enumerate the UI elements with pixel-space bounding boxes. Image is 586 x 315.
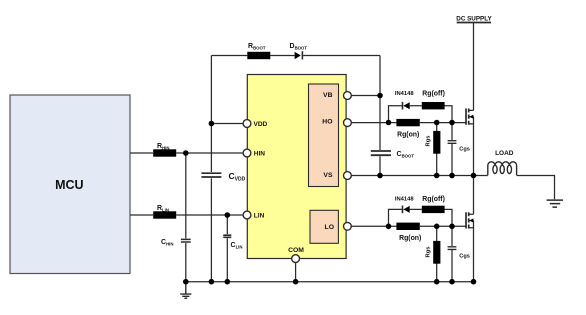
wire load to ground [517, 176, 555, 200]
wire bottom COM rail [186, 281, 474, 283]
ground left [180, 282, 191, 299]
capacitor CLIN [223, 235, 231, 237]
resistor RBOOT [247, 52, 270, 59]
diode DBOOT [295, 52, 301, 59]
node Cgs low junction [449, 224, 455, 230]
mosfet Q2 body arrow [469, 218, 473, 222]
diode IN4148 high [403, 102, 409, 109]
mosfet Q2 drain stub [469, 176, 474, 215]
wire high gate upper branch [389, 106, 453, 123]
mosfet Q1 channel segments [468, 109, 470, 125]
wire HIN from MCU [130, 152, 153, 154]
high-side inner block [309, 84, 339, 187]
wire COM pin drop [295, 262, 297, 282]
pin LO [344, 222, 352, 230]
mosfet Q2 gate bar [465, 212, 467, 228]
resistor Rgs high [433, 131, 440, 154]
svg-text:VDD: VDD [254, 121, 268, 128]
svg-text:LO: LO [325, 224, 334, 231]
wire CBOOT vertical [379, 96, 381, 176]
node Rgs high rail junction [434, 173, 440, 179]
pin VDD [243, 120, 251, 128]
mosfet Q2 source and body [469, 221, 474, 282]
wire Cgs high vertical [451, 123, 453, 176]
pin COM [292, 255, 300, 263]
wire high gate main [420, 122, 466, 124]
node CLIN rail junction [225, 279, 231, 285]
pin HO [344, 119, 352, 127]
svg-text:MCU: MCU [55, 178, 83, 192]
resistor Rg(off) high [422, 102, 445, 109]
svg-text:Rg(off): Rg(off) [422, 90, 445, 97]
wire VB pin to boot node [351, 95, 380, 97]
svg-text:LIN: LIN [254, 212, 265, 219]
wire HO pin [351, 122, 397, 124]
pin VB [344, 92, 352, 100]
resistor Rg(off) low [422, 206, 445, 213]
mosfet Q1 source and body [469, 117, 474, 176]
svg-text:Cgs: Cgs [459, 253, 470, 259]
diode IN4148 low [403, 206, 409, 213]
capacitor CHIN [181, 239, 191, 242]
ground right [547, 200, 563, 207]
node Rgs low rail junction [434, 279, 440, 285]
wire RHIN to HIN pin [176, 152, 243, 154]
node Cgs low rail junction [449, 279, 455, 285]
wire LIN from MCU [130, 214, 153, 216]
wire VDD pin stub [211, 123, 243, 125]
svg-text:Cgs: Cgs [459, 147, 470, 153]
node VDD junction [209, 121, 215, 127]
node CVDD rail junction [209, 279, 215, 285]
mosfet Q1 body arrow [469, 115, 473, 119]
svg-text:IN4148: IN4148 [395, 91, 414, 97]
wire VDD/boot vertical [210, 56, 212, 282]
capacitor Cgs low [448, 247, 457, 250]
svg-text:COM: COM [288, 247, 304, 254]
svg-text:Rgs: Rgs [425, 136, 431, 147]
resistor RHIN [153, 149, 176, 156]
svg-text:LOAD: LOAD [495, 150, 514, 157]
resistor Rg(on) low [396, 223, 419, 230]
DC supply bar [457, 22, 491, 24]
wire CLIN vertical [226, 215, 228, 282]
node Rgs high junction [434, 120, 440, 126]
node Cgs high junction [449, 120, 455, 126]
low-side inner block [310, 210, 338, 243]
node LO junction [386, 224, 392, 230]
wire bootstrap top [211, 56, 380, 96]
node VB junction [377, 93, 383, 99]
node Cgs high rail junction [449, 173, 455, 179]
wire low gate main [420, 225, 466, 227]
node LIN junction [225, 212, 231, 218]
svg-text:IN4148: IN4148 [395, 197, 414, 203]
mosfet Q1 drain stub [469, 23, 474, 111]
wire RLIN to LIN pin [176, 214, 243, 216]
pin circles [243, 92, 351, 263]
wire Rgs low vertical [436, 226, 438, 281]
svg-text:DC SUPPLY: DC SUPPLY [456, 15, 492, 22]
wire VS rail [351, 175, 488, 177]
pin LIN [243, 211, 251, 219]
node COM rail junction [293, 279, 299, 285]
wire Cgs low vertical [451, 226, 453, 281]
pin HIN [243, 149, 251, 157]
svg-text:VB: VB [323, 92, 333, 99]
wire Rgs high vertical [436, 123, 438, 176]
wire CHIN vertical [185, 153, 187, 282]
mosfet Q1 gate bar [465, 109, 467, 125]
MCU block [10, 95, 130, 274]
svg-text:HIN: HIN [254, 150, 265, 157]
node CBOOT rail junction [377, 173, 383, 179]
node phase junction [471, 173, 477, 179]
svg-text:Rgs: Rgs [425, 247, 431, 258]
capacitor CVDD [201, 173, 221, 177]
mosfet Q2 channel segments [468, 212, 470, 228]
node source low rail junction [471, 279, 477, 285]
svg-text:Rg(on): Rg(on) [397, 131, 419, 138]
load inductor coil [488, 162, 517, 176]
resistor Rgs low [433, 241, 440, 264]
capacitor CBOOT [371, 151, 391, 155]
resistor Rg(on) high [396, 119, 419, 126]
wire low gate upper branch [389, 209, 453, 226]
node CHIN rail junction [183, 279, 189, 285]
svg-text:Rg(off): Rg(off) [422, 196, 445, 203]
node HO junction [386, 120, 392, 126]
wire LO pin [351, 225, 397, 227]
svg-text:VS: VS [323, 172, 333, 179]
node HIN junction [183, 150, 189, 156]
pin VS [344, 172, 352, 180]
capacitor Cgs high [448, 141, 457, 144]
IC driver block U1 [247, 75, 346, 259]
node Rgs low junction [434, 224, 440, 230]
svg-text:HO: HO [322, 119, 332, 126]
svg-text:Rg(on): Rg(on) [399, 235, 421, 242]
resistor RLIN [153, 211, 176, 218]
